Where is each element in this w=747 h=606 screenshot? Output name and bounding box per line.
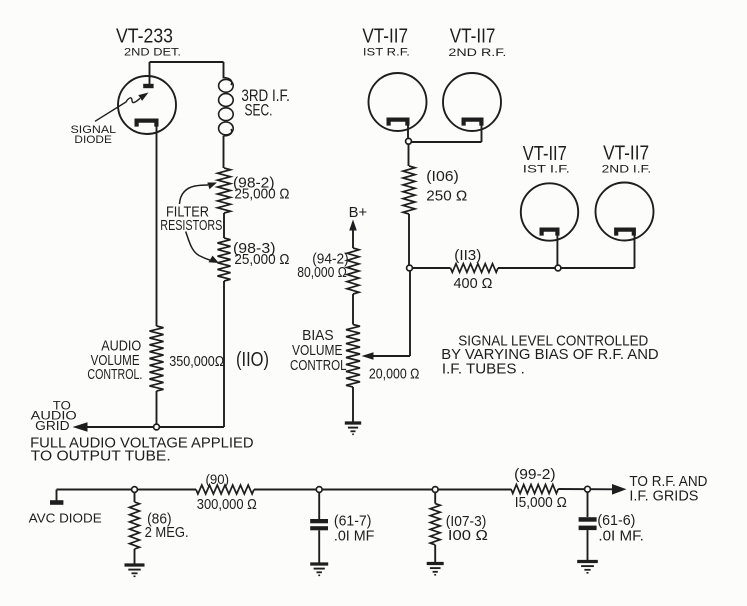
svg-text:2 MEG.: 2 MEG. — [145, 525, 189, 541]
AVC diode plate symbol — [56, 490, 58, 501]
wire joining RF cathodes — [408, 141, 482, 143]
wire 1st IF cathode down to junction — [556, 234, 558, 266]
resistor (90) 300,000 ohm — [196, 485, 254, 494]
ground below resistor (107-3) — [427, 562, 444, 565]
wire (113) to IF cathode junction — [498, 267, 555, 269]
svg-text:.0I MF: .0I MF — [334, 527, 375, 544]
tube VT-117 2nd I.F. envelope — [596, 183, 654, 241]
svg-text:TO OUTPUT TUBE.: TO OUTPUT TUBE. — [31, 448, 171, 465]
wiper arrowhead — [362, 352, 374, 360]
svg-text:CONTROL.: CONTROL. — [87, 366, 142, 383]
svg-text:I5,000 Ω: I5,000 Ω — [515, 494, 567, 511]
resistor (99-2) 15,000 ohm — [511, 485, 558, 494]
node junction at audio volume control bottom — [154, 424, 160, 430]
svg-text:(90): (90) — [206, 471, 230, 487]
cathode of 1st RF tube — [389, 120, 408, 126]
AVC bus wire right segment with arrow — [558, 488, 614, 490]
svg-text:VT-II7: VT-II7 — [603, 143, 649, 165]
svg-text:80,000 Ω: 80,000 Ω — [297, 265, 347, 281]
svg-text:IST I.F.: IST I.F. — [523, 163, 570, 175]
ground below capacitor (61-6) — [577, 560, 598, 563]
svg-text:(II3): (II3) — [454, 247, 481, 264]
svg-text:2ND DET.: 2ND DET. — [124, 47, 181, 59]
capacitor (61-7) .01 MF — [318, 492, 320, 519]
svg-text:2ND I.F.: 2ND I.F. — [602, 163, 652, 175]
wire down to coil top — [223, 62, 225, 79]
svg-text:(I06): (I06) — [426, 168, 459, 185]
leader line from SIGNAL DIODE label — [95, 98, 140, 121]
ground below bias pot — [345, 421, 361, 424]
tube VT-117 1st I.F. envelope — [521, 183, 578, 240]
potentiometer bias volume control 20,000 ohm — [346, 325, 360, 388]
wire junction to 2nd IF cathode drop — [561, 267, 635, 269]
tube VT-117 1st R.F. envelope — [369, 73, 427, 131]
AVC bus wire left segment — [57, 489, 197, 491]
tube VT-233 2nd detector envelope — [118, 76, 176, 134]
wire pot bottom to node — [156, 391, 158, 425]
svg-text:I.F. TUBES .: I.F. TUBES . — [442, 360, 525, 377]
resistor (98-2) 25,000 ohm — [218, 168, 231, 213]
svg-text:AVC DIODE: AVC DIODE — [29, 511, 102, 526]
svg-text:CONTROL: CONTROL — [290, 357, 347, 374]
cathode of VT-233 — [137, 121, 157, 127]
svg-text:SEC.: SEC. — [245, 101, 273, 119]
svg-text:20,000 Ω: 20,000 Ω — [369, 365, 420, 382]
wire 1st RF cathode down to junction — [407, 124, 409, 143]
wire bias node to resistor (113) — [412, 267, 450, 269]
svg-text:250 Ω: 250 Ω — [426, 188, 467, 205]
cathode of 2nd IF tube — [616, 230, 634, 236]
capacitor (61-6) .01 MF — [587, 492, 589, 517]
curved arrow to resistor (98-3) — [186, 232, 211, 261]
ground below resistor (86) — [125, 563, 145, 566]
audio output wire with arrow TO AUDIO GRID — [84, 426, 224, 428]
resistor (98-3) 25,000 ohm — [218, 238, 231, 281]
node junction below 1st IF tube — [555, 265, 561, 271]
resistor (107-3) 100 ohm — [434, 492, 436, 503]
cathode of 1st IF tube — [542, 230, 558, 236]
wire bias pot to ground — [352, 387, 354, 422]
B+ arrow up — [349, 220, 357, 231]
svg-text:400 Ω: 400 Ω — [454, 275, 493, 292]
resistor (113) 400 ohm — [451, 264, 499, 273]
node junction at capacitor (61-6) — [585, 486, 591, 492]
svg-text:IST R.F.: IST R.F. — [363, 46, 410, 58]
resistor (106) 250 ohm — [403, 166, 415, 214]
inductor 3RD I.F. SEC. coil — [224, 78, 232, 86]
svg-text:350,000Ω: 350,000Ω — [169, 353, 224, 370]
svg-text:GRID: GRID — [35, 419, 70, 433]
AVC bus wire middle segment — [254, 489, 511, 491]
svg-text:I00 Ω: I00 Ω — [448, 527, 488, 544]
svg-text:DIODE: DIODE — [74, 134, 112, 146]
arrowhead pointing to diode plate — [138, 93, 148, 101]
svg-text:(99-2): (99-2) — [514, 466, 556, 483]
svg-text:B+: B+ — [349, 204, 368, 221]
svg-text:VT-233: VT-233 — [116, 26, 173, 48]
svg-text:25,000 Ω: 25,000 Ω — [234, 251, 289, 268]
svg-text:VT-II7: VT-II7 — [362, 26, 408, 48]
cathode of 2nd RF tube — [464, 120, 482, 126]
svg-text:RESISTORS: RESISTORS — [160, 217, 222, 234]
svg-text:25,000 Ω: 25,000 Ω — [234, 185, 289, 202]
wire junction down to resistor (106) — [408, 144, 410, 166]
diode plate of VT-233 — [143, 84, 153, 88]
wire from plate lead to coil (top interconnect) — [150, 61, 224, 63]
cathode wire VT-233 down to audio volume control — [156, 124, 158, 327]
node junction below 1st RF tube — [406, 138, 412, 144]
node junction at capacitor (61-7) — [316, 487, 322, 493]
svg-text:300,000 Ω: 300,000 Ω — [197, 497, 257, 513]
resistor (94-2) 80,000 ohm — [347, 248, 359, 294]
svg-text:VT-II7: VT-II7 — [450, 26, 496, 48]
potentiometer audio volume control 350,000 ohm — [150, 326, 164, 391]
wire (94-2) to bias pot — [352, 294, 354, 325]
wire coil bottom to filter resistor — [223, 136, 225, 169]
wire filter chain down to audio line — [223, 281, 225, 427]
svg-text:2ND R.F.: 2ND R.F. — [448, 47, 506, 59]
wire between filter resistors — [223, 213, 225, 238]
wiper feed wire from bias node — [409, 271, 411, 356]
wire resistor (106) down to bias node — [408, 214, 410, 265]
node junction at bias bus — [407, 265, 413, 271]
ground below capacitor (61-7) — [310, 562, 328, 565]
tube VT-117 2nd R.F. envelope — [443, 73, 501, 131]
curved arrow to resistor (98-2) — [180, 185, 209, 204]
svg-text:(IIO): (IIO) — [236, 349, 269, 371]
node junction at resistor (107-3) — [432, 487, 438, 493]
svg-text:VT-II7: VT-II7 — [523, 143, 567, 165]
plate lead wire — [149, 62, 151, 85]
resistor (86) 2 MEG — [134, 492, 136, 502]
node junction at resistor (86) — [132, 487, 138, 493]
svg-text:I.F. GRIDS: I.F. GRIDS — [629, 488, 698, 505]
svg-text:.0I MF.: .0I MF. — [598, 528, 644, 545]
